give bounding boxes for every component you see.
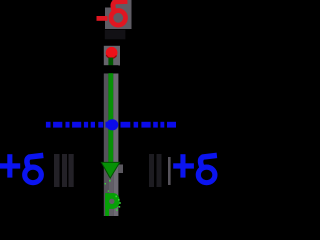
black tick at top — [88, 0, 91, 13]
gray nub right of band — [118, 165, 123, 174]
green bond line (upper dark joint) — [108, 58, 113, 68]
plus — [173, 163, 194, 168]
green bond line (main stem) — [108, 73, 113, 163]
green P glyph at bottom (cut off) — [105, 193, 119, 216]
red delta glyph (top, -δ) — [111, 1, 128, 25]
faint residue below plate — [105, 30, 126, 40]
delta — [198, 155, 217, 182]
gray band behind bond line (left column) — [104, 73, 109, 216]
ghost bars left of right label — [149, 154, 162, 187]
blue blob at crossing — [106, 119, 118, 130]
gray band middle behind green line — [108, 73, 113, 216]
red ball (top atom) — [106, 47, 118, 59]
blue dashed horizontal line — [46, 122, 176, 128]
right +δ label (blue) — [173, 154, 217, 183]
ghost bars right of left label — [54, 154, 74, 187]
green speckles near bottom glyph — [105, 180, 121, 211]
black blob over band — [103, 65, 119, 73]
ghost plate behind top delta — [105, 0, 132, 29]
halo square behind red ball — [104, 46, 120, 66]
left +δ label (blue) — [0, 154, 43, 183]
delta — [25, 155, 44, 182]
minus sign of top red delta label — [97, 16, 108, 21]
gray band behind bond line (right column) — [113, 73, 118, 216]
black corner notch of plate — [105, 0, 112, 8]
green arrowhead pointing down — [101, 162, 119, 178]
plus — [0, 163, 20, 168]
